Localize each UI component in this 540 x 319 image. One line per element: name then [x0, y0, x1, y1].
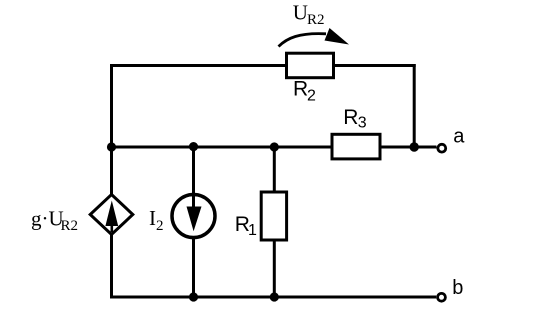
svg-text:R: R	[343, 106, 358, 129]
svg-text:2: 2	[156, 218, 164, 234]
svg-text:R: R	[293, 78, 308, 101]
svg-text:1: 1	[248, 222, 257, 239]
svg-text:g·U: g·U	[31, 207, 64, 231]
svg-text:3: 3	[358, 114, 367, 131]
svg-text:U: U	[293, 1, 308, 25]
svg-text:R2: R2	[307, 12, 325, 28]
svg-text:b: b	[452, 277, 463, 299]
svg-text:R2: R2	[61, 218, 79, 234]
svg-text:2: 2	[307, 87, 316, 104]
svg-text:a: a	[453, 126, 465, 148]
svg-text:I: I	[149, 206, 156, 230]
